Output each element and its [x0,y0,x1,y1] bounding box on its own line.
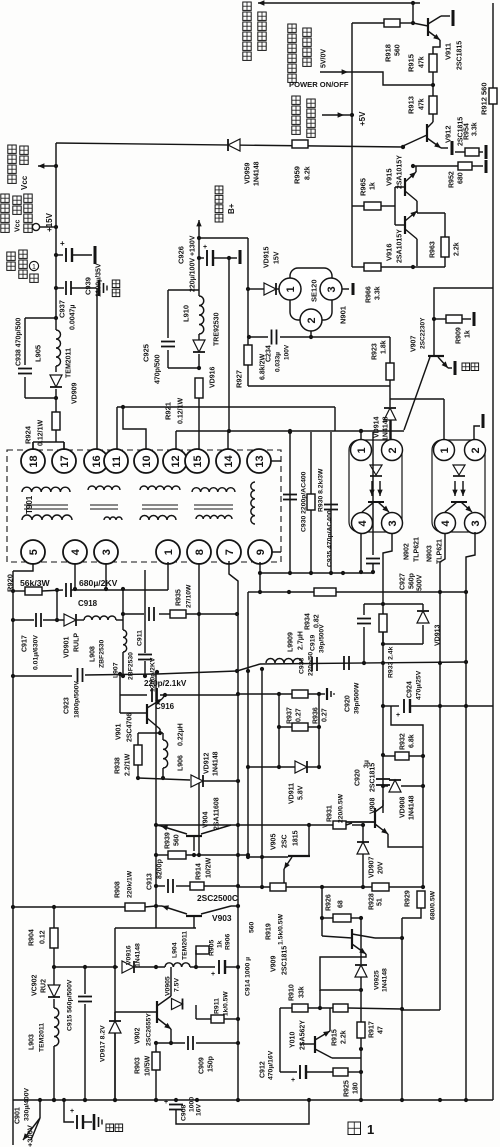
svg-text:2SA11608: 2SA11608 [214,797,221,830]
capacitor C234 [271,330,273,345]
svg-text:2BF2530: 2BF2530 [127,652,134,680]
svg-text:R927: R927 [235,370,244,388]
svg-text:VD916: VD916 [210,366,217,388]
pin 14 T901 [216,449,240,473]
wire line y407 [117,406,335,408]
opto phototransistor [368,501,384,503]
svg-text:TEM2011: TEM2011 [181,931,188,960]
resistor R933 [379,614,387,632]
svg-text:2SC2655Y: 2SC2655Y [145,1013,152,1046]
svg-text:C917: C917 [22,635,29,652]
svg-text:R923: R923 [372,343,379,360]
svg-text:VD908: VD908 [400,796,407,818]
wire x320 link [319,990,321,1008]
inductor L904 [165,963,190,967]
wire bus x262 [261,669,263,887]
svg-text:330µ/400V: 330µ/400V [23,1088,30,1121]
diode VD912 [191,775,203,787]
svg-text:V904: V904 [203,812,210,828]
svg-text:V908: V908 [370,798,377,814]
wire top rail y3 [258,2,420,4]
resistor R930 [307,494,315,510]
svg-text:VC902: VC902 [32,974,39,996]
svg-text:L904: L904 [171,942,178,958]
resistor R959 [292,140,308,148]
wire bus y887 [238,886,270,888]
wire y855 R939 [156,854,168,856]
svg-text:L908: L908 [90,646,97,662]
svg-text:VD907: VD907 [369,856,376,878]
resistor R934 [314,588,336,596]
wire y694 [238,693,319,695]
svg-text:0.12: 0.12 [40,930,47,944]
svg-text:R915: R915 [407,54,416,72]
label hang zhendang dianyuan [243,2,251,10]
wire C911 [144,570,146,653]
transformer T901 outline [7,450,281,562]
svg-text:L905: L905 [34,345,43,362]
wire N903 pin2 [474,426,480,440]
svg-text:L907: L907 [112,662,119,678]
terminal +15V [32,223,39,230]
resistor R914 [190,882,204,890]
resistor R911 [211,1015,224,1023]
svg-text:1800p/500V: 1800p/500V [73,680,80,718]
svg-text:VD911: VD911 [289,783,296,804]
svg-text:V0916: V0916 [125,945,132,965]
svg-text:R929: R929 [405,890,412,907]
inductor L906 [163,740,168,768]
inductor L908 [84,616,116,620]
wire pin7 bus x238 [229,561,238,1100]
svg-text:R936: R936 [313,707,320,724]
svg-text:680/0.5W: 680/0.5W [429,890,436,920]
terminal +300V [39,1100,41,1118]
svg-text:V902: V902 [135,1028,142,1044]
svg-text:R915: R915 [332,1029,339,1046]
svg-text:R909: R909 [456,327,463,344]
capacitor on R935 line [148,607,150,621]
wire R935 line y614 [123,613,144,615]
wire C234 line y337 [249,336,268,338]
svg-text:16: 16 [91,455,103,467]
label zhi hang shuchu [215,186,223,194]
resistor R939 [168,851,186,859]
svg-text:R903: R903 [135,1057,142,1074]
diode VD959 [228,139,240,151]
svg-text:180: 180 [353,1082,360,1094]
wire 5V arrow [322,114,344,116]
wire C927 riser [372,432,374,555]
svg-text:1N4148: 1N4148 [213,751,220,776]
resistor R936 [292,723,308,731]
svg-text:8.2k: 8.2k [305,166,312,180]
svg-text:2.2/1W: 2.2/1W [125,753,132,776]
wire x279 [278,694,280,767]
svg-text:18: 18 [28,455,40,467]
capacitor C926 [197,256,201,260]
wire line y590 [13,590,25,592]
svg-text:+: + [396,712,400,719]
svg-text:VD912: VD912 [204,752,211,774]
svg-text:2SC: 2SC [282,834,289,848]
opto light arrows [454,481,456,496]
inductor L9909 [266,659,302,664]
label you 5V yaokong [292,96,300,104]
svg-text:R966: R966 [366,286,373,303]
varistor VC902 [53,967,55,985]
diode VD901 [64,614,76,626]
transistor V915 [395,186,405,188]
svg-text:R908: R908 [115,881,122,898]
svg-text:4: 4 [440,520,452,527]
capacitor C901 [64,1100,74,1122]
svg-text:R937: R937 [287,707,294,724]
wire right rail x493 [492,3,494,1100]
svg-text:C914 1000 µ: C914 1000 µ [244,957,251,996]
svg-text:R914: R914 [196,863,203,880]
inductor L907 [123,630,127,652]
resistor R910 [292,1004,308,1012]
svg-text:560: 560 [395,44,402,56]
wire pin14 riser [227,431,229,450]
pin 17 T901 [52,449,76,473]
svg-text:L910: L910 [182,305,191,322]
resistor R929 [417,891,425,908]
wire y644 [383,643,423,645]
capacitor C920 39p to gnd [319,693,325,695]
svg-text:C938 470p/500: C938 470p/500 [16,318,23,366]
wire to x248 [199,237,248,239]
wire R965 lead [352,205,364,207]
wire V908 base [346,821,375,823]
transistor V916 [395,224,405,226]
svg-text:2SA1015Y: 2SA1015Y [397,229,404,263]
svg-text:560: 560 [174,834,181,846]
transistor V901 [119,695,121,713]
transistor V902 [115,1011,157,1013]
svg-text:V915: V915 [385,168,394,186]
svg-text:C909: C909 [199,1057,206,1074]
svg-text:R910: R910 [289,984,296,1001]
wire x57 link [56,590,58,620]
resistor R905 [196,946,209,954]
svg-text:N902: N902 [404,543,411,560]
svg-text:Y010: Y010 [290,1032,297,1048]
svg-text:V0905: V0905 [164,976,171,996]
resistor R915 [429,54,437,72]
svg-text:4: 4 [70,548,82,555]
label figure 1 [348,1122,361,1135]
svg-text:V912: V912 [444,125,453,143]
svg-text:1.8k: 1.8k [381,340,388,354]
pin 9 T901 [248,540,272,564]
svg-text:1815: 1815 [293,830,300,846]
diode VD917 zener [114,1012,116,1020]
svg-text:R935: R935 [176,589,183,606]
resistor R926 [333,914,351,922]
svg-text:500V: 500V [417,574,424,591]
svg-text:V903: V903 [212,913,232,923]
resistor R912 [489,88,497,104]
wire x280 [279,1008,281,1072]
wire pin17 stub [63,442,65,450]
svg-text:1N4148: 1N4148 [381,968,388,992]
svg-text:2SC2230Y: 2SC2230Y [419,317,426,349]
resistor R932 [395,752,409,760]
wire bus x248 [247,592,249,857]
wire y604 [364,603,423,605]
svg-text:9: 9 [255,549,267,555]
pin 16 T901 [84,449,108,473]
svg-text:SE120: SE120 [310,279,319,302]
pin 3 T901 [94,540,118,564]
svg-text:7: 7 [224,549,236,555]
svg-text:C919: C919 [309,635,316,651]
wire N902 pin4 [360,534,362,572]
wire pin16 riser x97 [96,288,98,450]
wire to audio amp Vcc arrow [38,165,56,167]
svg-text:V911: V911 [444,43,453,60]
svg-text:R926: R926 [326,894,333,911]
wire jog x248 [248,591,260,593]
svg-text:L9909: L9909 [288,632,295,652]
label shou CPU kai/guanji [288,24,296,32]
wire N903 pin3 bus x466 [466,532,475,1100]
svg-text:2: 2 [306,317,318,323]
svg-text:R906: R906 [224,934,231,950]
transistor V910 2SA562Y [300,1043,315,1045]
wire line y431 [176,430,404,432]
wire y778 VD912 [138,778,190,780]
capacitor C937 [54,286,58,290]
wire shield box [115,927,196,929]
diode VD916 [193,340,205,352]
svg-text:8: 8 [194,549,206,555]
svg-text:C901: C901 [15,1107,22,1124]
svg-text:13: 13 [254,455,266,467]
capacitor C938 [18,368,32,370]
resistor R917 [360,990,362,1022]
svg-text:L903: L903 [29,1034,36,1050]
svg-text:2SC4706: 2SC4706 [127,713,134,742]
svg-text:0.27: 0.27 [296,708,303,722]
svg-text:+: + [203,244,207,251]
wire long line y674 [13,675,72,677]
svg-text:TEM2011: TEM2011 [66,348,73,378]
wire R918 lead [352,22,384,24]
wire line y573 [260,572,373,574]
diode VD908 [383,785,388,787]
svg-text:R939: R939 [165,832,172,849]
svg-text:C234: C234 [266,345,273,362]
resistor R935 [170,610,186,618]
svg-text:V0925: V0925 [373,970,380,990]
capacitor C935 [324,504,338,506]
svg-text:+: + [60,239,65,248]
wire VD915 [248,288,264,290]
opto LED [370,465,382,475]
svg-text:220p/50: 220p/50 [307,651,314,676]
wire main Vcc switch line [56,143,403,147]
svg-text:47k: 47k [419,56,426,68]
capacitor C913 [167,879,169,893]
capacitor C914 [218,960,220,974]
wire C930 chain [289,432,291,573]
svg-text:C923: C923 [64,697,71,714]
svg-text:560: 560 [248,921,255,933]
wire pin13 stub [271,460,281,462]
svg-text:1k/0.5W: 1k/0.5W [222,991,229,1016]
svg-text:R911: R911 [213,998,220,1014]
wire 220p branch [119,674,121,695]
svg-text:VD909: VD909 [72,382,79,404]
resistor R915b [333,1004,348,1012]
svg-text:TRE92530: TRE92530 [214,312,221,346]
svg-text:20V: 20V [378,861,385,874]
wire y886 C913 R914 [156,885,165,887]
svg-text:C915 560p/500V: C915 560p/500V [66,979,73,1031]
svg-text:470µ/16V: 470µ/16V [267,1050,274,1080]
resistor R954 [465,148,479,156]
wire left rail x56 [55,143,57,330]
capacitor C930 [283,494,297,496]
wire x123 [122,589,124,630]
capacitor C920b [343,656,345,670]
svg-text:R933 2.4k: R933 2.4k [387,646,394,678]
svg-text:6.8k: 6.8k [409,734,416,748]
svg-text:17: 17 [59,455,71,467]
resistor R966 [352,266,364,268]
regulator U SE120 N901 [290,268,332,320]
svg-text:0.22µH: 0.22µH [178,723,185,746]
label redi [106,1124,114,1132]
opto phototransistor [451,501,467,503]
svg-text:0.27: 0.27 [322,708,329,722]
svg-text:C912: C912 [260,1061,267,1078]
svg-text:0.0047µ: 0.0047µ [70,305,77,330]
label zhi hang zhendang Vcc [1,194,9,202]
pin 1 T901 [156,540,180,564]
svg-text:C930 2200p/AC400: C930 2200p/AC400 [300,471,307,532]
wire R908 line y907 [13,906,125,908]
svg-text:R912 560: R912 560 [480,82,489,115]
wire line y620 [13,619,34,621]
svg-text:0.01µ/630V: 0.01µ/630V [32,635,39,670]
transistor V911 [413,23,428,26]
resistor R909 lead [434,318,446,320]
pin 18 T901 [21,449,45,473]
wire R927 top [247,337,249,345]
svg-text:C937: C937 [58,300,67,318]
svg-text:1: 1 [285,286,297,292]
wire y1010 [280,1007,292,1009]
svg-text:C908: C908 [180,1105,187,1121]
resistor R904 [53,907,55,928]
svg-text:220p/2.1kV: 220p/2.1kV [144,679,187,688]
svg-text:7.5V: 7.5V [173,978,180,992]
svg-text:56k/3W: 56k/3W [20,578,51,588]
diode V0906 zener [172,999,183,1010]
resistor R928 [372,883,389,891]
svg-text:15V: 15V [274,251,281,264]
svg-text:3: 3 [326,286,338,292]
svg-text:R952: R952 [449,171,456,188]
svg-text:47: 47 [378,1026,385,1034]
svg-text:1k: 1k [370,182,377,190]
svg-text:V901: V901 [116,724,123,740]
svg-text:10/2W: 10/2W [206,857,213,878]
wire L906 top [162,733,164,740]
wire line y592 R934 [260,591,314,593]
diode VD914 [384,408,396,420]
resistor R937 [292,690,308,698]
wire pin18 stub [32,442,34,450]
svg-text:2SA562Y: 2SA562Y [300,1020,307,1050]
svg-text:33k: 33k [299,986,306,998]
wire C924 line y706 [383,705,399,707]
svg-text:VD913: VD913 [435,624,442,646]
svg-text:V916: V916 [385,243,394,261]
svg-text:RULP: RULP [74,633,81,652]
svg-text:R954: R954 [464,123,471,140]
resistor R965 [364,202,381,210]
svg-text:1N4148: 1N4148 [383,416,390,441]
svg-text:560p: 560p [409,573,416,589]
terminal circle 1 [29,261,38,270]
svg-text:C933: C933 [298,658,305,674]
svg-text:+: + [164,1099,168,1106]
wire N903 pin1 feed [390,398,444,400]
svg-text:8200p: 8200p [157,859,164,879]
svg-text:680µ/2KV: 680µ/2KV [79,578,118,588]
svg-text:R963: R963 [430,241,437,258]
svg-text:C924: C924 [407,681,414,698]
svg-text:VD917 8.2V: VD917 8.2V [99,1025,106,1062]
svg-text:N903: N903 [427,545,434,562]
svg-text:R930 8.2k/3W: R930 8.2k/3W [317,468,324,512]
diode V0925 [360,918,362,964]
svg-text:C920: C920 [355,769,362,786]
wire R923 top [389,337,391,363]
resistor R925 [333,1068,348,1076]
svg-text:C920: C920 [345,695,352,712]
svg-text:R905: R905 [208,940,215,956]
svg-text:R919: R919 [266,923,273,940]
wire pin9 stub [272,551,281,553]
svg-text:12: 12 [170,455,182,467]
svg-text:V909: V909 [271,956,278,972]
svg-text:2SA1015Y: 2SA1015Y [397,155,404,189]
svg-text:0.033µ: 0.033µ [274,352,281,372]
label lengdi V907 [462,363,470,371]
diode VD907 zener [362,825,364,842]
ground cold C937 [98,280,101,296]
capacitor C919 [311,657,313,671]
svg-text:V905: V905 [271,834,278,850]
svg-text:VD901: VD901 [64,636,71,658]
transistor V903 [186,915,202,917]
wire N902 pin2 [390,420,392,439]
opto outline [432,440,485,532]
wire bottom bus y1100 [13,1099,493,1101]
svg-text:150p: 150p [208,1056,215,1072]
resistor R921 [195,378,203,398]
svg-text:2SC1815: 2SC1815 [457,41,464,70]
wire C933 branch [363,604,365,615]
svg-text:R934: R934 [305,613,312,630]
wire pin12 riser [175,431,177,450]
